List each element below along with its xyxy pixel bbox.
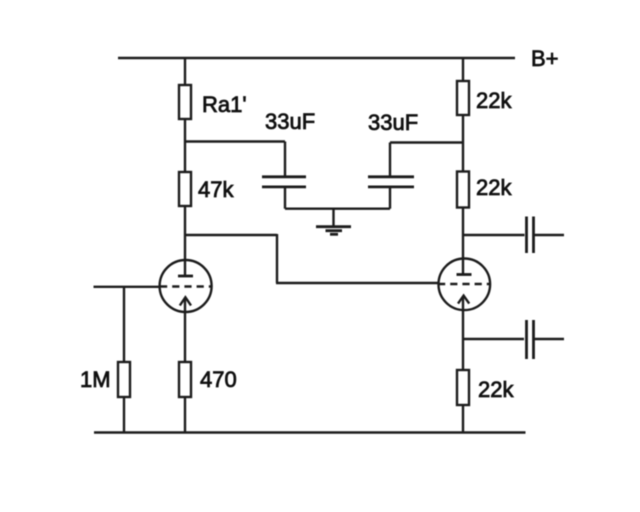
svg-text:22k: 22k (476, 175, 512, 200)
tube V1 envelope (160, 260, 212, 312)
svg-text:22k: 22k (476, 88, 512, 113)
wire coupling cap B node (463, 338, 524, 340)
tube V2 envelope (439, 259, 491, 311)
tube V1 grid (160, 285, 212, 287)
svg-text:33uF: 33uF (265, 109, 315, 134)
wire anode node V1 to grid V2: vertical (276, 234, 278, 283)
wire anode node V1 to grid V2: horizontal (185, 234, 277, 236)
capacitor coupling B plates (525, 320, 528, 359)
wire 47k to tube V1 plate (184, 206, 186, 275)
wire anode node V1 to grid V2: horizontal 2 (276, 282, 438, 284)
capacitor C2 33uF top lead (389, 143, 391, 177)
resistor Ra1' (179, 85, 191, 119)
wire 22k to 22k (462, 115, 464, 172)
wire 22k to tube V2 plate (462, 208, 464, 274)
resistor R 47k (179, 172, 191, 206)
svg-text:470: 470 (200, 367, 237, 392)
tube V1 cathode lead (184, 298, 186, 362)
wire Ra1' to 47k (184, 119, 186, 172)
tube V2 cathode arrow (458, 296, 469, 304)
resistor R 22k middle (457, 172, 469, 208)
resistor R 22k lower (457, 370, 469, 405)
svg-text:47k: 47k (198, 177, 234, 202)
ground bar 3 (330, 233, 338, 236)
tube V2 grid (438, 283, 490, 285)
capacitor coupling A plates (525, 217, 528, 254)
tube V2 cathode lead (462, 297, 464, 371)
wire V1 grid input (94, 286, 161, 288)
resistor R 1M (118, 362, 130, 397)
tube V1 plate (178, 275, 193, 278)
wire 22k lower to rail (462, 405, 464, 433)
wire cap bottoms to ground (285, 207, 390, 209)
capacitor C2 33uF top wire (390, 141, 463, 143)
capacitor C1 33uF top lead (284, 142, 286, 177)
wire coupling cap B output stub (535, 338, 565, 340)
wire coupling cap A output stub (535, 234, 565, 236)
svg-text:22k: 22k (478, 377, 514, 402)
tube V2 plate (457, 273, 472, 276)
resistor R 470 (179, 362, 191, 397)
svg-text:1M: 1M (80, 367, 111, 392)
wire coupling cap A node (463, 234, 525, 236)
svg-text:33uF: 33uF (368, 110, 418, 135)
wire 1M to ground rail (123, 397, 125, 433)
capacitor C1 33uF plates (262, 175, 306, 178)
tube V1 cathode arrow (180, 297, 191, 305)
capacitor C2 33uF plates (368, 175, 414, 178)
ground bar 1 (316, 225, 351, 228)
resistor R 22k upper (457, 81, 469, 115)
svg-text:Ra1': Ra1' (202, 92, 247, 117)
ground stub (332, 209, 334, 227)
capacitor C2 bottom lead (389, 188, 391, 209)
capacitor C1 bottom lead (284, 188, 286, 209)
wire bottom rail (94, 431, 526, 433)
wire node under Ra1' to cap C1 (185, 140, 285, 142)
wire grid node to 1M (123, 287, 125, 363)
wire left branch: rail to Ra1' (184, 58, 186, 85)
wire 470 to ground rail (184, 397, 186, 433)
wire right branch: rail to 22k (462, 58, 464, 81)
svg-text:B+: B+ (531, 46, 559, 71)
wire top B+ rail (118, 57, 515, 59)
ground bar 2 (326, 229, 343, 232)
